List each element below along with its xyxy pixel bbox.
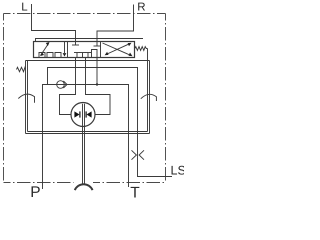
svg-text:T: T <box>130 185 140 201</box>
svg-text:R: R <box>137 2 145 14</box>
svg-text:P: P <box>30 184 40 200</box>
svg-text:L: L <box>21 2 28 14</box>
svg-text:LS: LS <box>171 164 185 178</box>
